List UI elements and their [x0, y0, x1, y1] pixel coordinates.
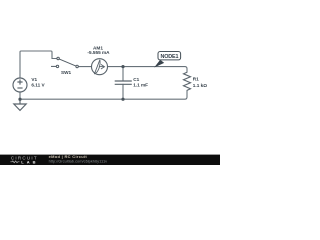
ground — [14, 99, 26, 110]
wire bottom rail — [20, 90, 187, 99]
switch unused throw stub — [51, 65, 56, 67]
wire V1 bottom — [19, 92, 21, 99]
svg-text:1.1 mF: 1.1 mF — [133, 83, 148, 88]
svg-text:R1: R1 — [193, 76, 199, 81]
footer bar — [0, 155, 220, 165]
svg-text:NODE1: NODE1 — [160, 54, 178, 60]
ammeter AM1 — [92, 59, 108, 75]
meter arc — [96, 60, 101, 73]
wire AM1 to node corner (top rail) — [108, 67, 188, 73]
wire V1 top to switch — [20, 51, 57, 78]
switch SW1 — [51, 57, 78, 67]
svg-text:C1: C1 — [133, 77, 139, 82]
wire common terminal to AM1 — [79, 66, 92, 68]
node junction dot V1/ground — [18, 98, 21, 101]
svg-text:SW1: SW1 — [61, 70, 72, 75]
svg-text:http://circuitlab.com/c6lpkh6y: http://circuitlab.com/c6lpkh6y111v — [49, 158, 108, 163]
label R1 — [193, 76, 207, 88]
node flag NODE1 — [154, 52, 180, 68]
svg-text:1.1 kΩ: 1.1 kΩ — [193, 83, 207, 88]
meter needle — [94, 60, 100, 74]
voltage source V1 — [13, 78, 27, 92]
svg-text:6.11 V: 6.11 V — [31, 83, 45, 88]
label V1 — [31, 77, 45, 87]
wire C1 bottom lead — [122, 84, 124, 99]
svg-text:LAB: LAB — [21, 159, 38, 164]
label AM1 — [87, 45, 110, 55]
svg-text:V1: V1 — [31, 77, 37, 82]
switch lever — [59, 59, 75, 66]
switch common terminal — [76, 65, 78, 67]
resistor R1 — [184, 72, 191, 90]
arrow shaft — [99, 66, 104, 68]
junction dot top rail — [121, 65, 124, 68]
svg-text:-5.555 mA: -5.555 mA — [87, 50, 110, 55]
junction dot bottom rail — [121, 98, 124, 101]
arrow head — [101, 64, 105, 69]
wire C1 top lead — [122, 67, 124, 81]
footer logo zigzag — [10, 161, 19, 163]
switch throw terminal top — [57, 57, 59, 59]
label C1 — [133, 77, 148, 87]
switch throw terminal bottom — [56, 65, 58, 67]
capacitor C1 plates — [115, 81, 132, 84]
